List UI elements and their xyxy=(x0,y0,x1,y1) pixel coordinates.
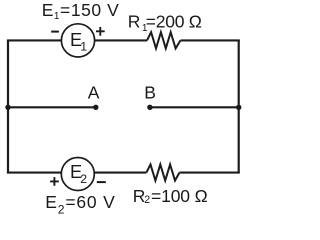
polarity plus of E2 xyxy=(50,177,59,186)
battery E2 xyxy=(61,158,94,191)
svg-text:A: A xyxy=(88,83,100,103)
resistor R2 xyxy=(146,164,179,180)
junction dot left xyxy=(5,105,10,110)
wire: bottom-right segment (after R2) xyxy=(179,172,239,174)
svg-text:R1=200 Ω: R1=200 Ω xyxy=(128,11,202,34)
wire: left vertical xyxy=(7,40,9,172)
wire: top-left segment xyxy=(7,39,62,41)
wire: middle-left segment (to node A) xyxy=(7,106,96,108)
wire: right vertical xyxy=(238,40,240,172)
svg-text:R2=100 Ω: R2=100 Ω xyxy=(133,186,208,206)
node B terminal dot xyxy=(147,105,152,110)
junction dot right xyxy=(236,105,241,110)
wire: bottom-middle segment (between E2 and R2) xyxy=(94,172,146,174)
wire: bottom-left segment xyxy=(7,172,62,174)
battery E1 xyxy=(61,24,94,57)
svg-text:B: B xyxy=(144,83,156,103)
wire: top-middle segment (between E1 and R1) xyxy=(95,39,148,41)
svg-text:E1=150 V: E1=150 V xyxy=(42,0,120,22)
polarity minus of E1 xyxy=(51,31,59,33)
wire: top-right segment (after R1) xyxy=(181,39,240,41)
polarity minus of E2 xyxy=(97,181,106,183)
node A terminal dot xyxy=(93,105,98,110)
wire: middle-right segment (from node B) xyxy=(150,106,240,108)
resistor R1 xyxy=(147,32,181,48)
polarity plus of E1 xyxy=(96,27,105,36)
